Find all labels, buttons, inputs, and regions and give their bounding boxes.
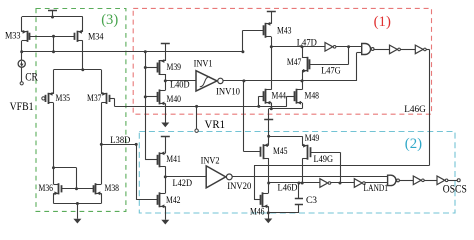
wire VDD rail right [269, 136, 303, 138]
wire diff pair top rail [54, 69, 102, 71]
wire M36 source down [53, 193, 55, 203]
ground symbol M42 [161, 220, 169, 225]
transistor M46 [262, 192, 264, 207]
wire top rail M33-M34 [22, 16, 83, 18]
wire M46 gate vertical [254, 166, 256, 200]
wire NAND1 out [374, 49, 390, 51]
svg-text:M49: M49 [305, 133, 320, 143]
node dot gate tie [52, 35, 55, 38]
svg-text:INV1: INV1 [194, 58, 213, 68]
svg-text:M37: M37 [87, 93, 102, 103]
wire M37 drain up [101, 70, 103, 94]
wire M49 gate L49G [310, 152, 340, 154]
wire M43 drain down [271, 37, 273, 47]
wire M49 drain down [302, 159, 304, 183]
wire L47G gate wire [310, 64, 349, 66]
node dot M33 drain rail [20, 50, 23, 53]
capacitor C3 [295, 198, 303, 200]
wire VR1 line [115, 106, 287, 108]
wire M46 ground stick [268, 213, 270, 219]
node dot L40D [164, 79, 167, 82]
svg-text:M36: M36 [39, 183, 54, 193]
wire bias rail [22, 51, 243, 53]
wire M38 source down [101, 193, 103, 203]
transistor M39 [159, 60, 161, 75]
wire M45 drain down [268, 158, 270, 183]
wire M33 source down [21, 41, 23, 52]
wire C3 bottom [298, 205, 300, 213]
wire M40 gate [145, 96, 157, 98]
svg-text:L46G: L46G [404, 104, 426, 114]
block (1) dashed red box [133, 8, 431, 114]
wire INV10 to M45 gate horiz [244, 151, 261, 153]
terminal VR1 open circle [195, 129, 198, 132]
current source CR wire upper [21, 52, 23, 61]
svg-text:M43: M43 [277, 26, 292, 36]
wire M34 drain up [82, 17, 84, 32]
wire M43 gate jog horizontal [243, 30, 263, 32]
ground symbol M46 [264, 219, 272, 224]
svg-text:INV2: INV2 [201, 155, 220, 165]
node dot L42D [164, 175, 167, 178]
svg-text:L38D: L38D [110, 135, 130, 145]
transistor M37 [106, 93, 108, 104]
svg-text:VFB1: VFB1 [10, 101, 34, 113]
wire CR to terminal [21, 67, 23, 82]
svg-text:INV10: INV10 [216, 86, 240, 96]
node dot M39 gate tap [144, 66, 147, 69]
wire L49G vertical [340, 152, 342, 183]
transistor M40 [159, 89, 161, 104]
node dot L49G tap [339, 182, 342, 185]
svg-text:M41: M41 [166, 154, 181, 164]
wire M47 bottom terminal [302, 71, 304, 90]
wire M41-M42 link [165, 166, 167, 193]
wire M37 gate down [114, 98, 116, 106]
wire L47G vertical [348, 47, 350, 65]
transistor M41 [159, 152, 161, 167]
transistor M33 [27, 31, 29, 42]
wire INV2 output line [232, 176, 387, 178]
VDD supply symbol M41 [161, 136, 170, 138]
node dot C3 tap [297, 182, 300, 185]
wire M33 drain up [21, 17, 23, 32]
wire source rail bottom [54, 203, 102, 205]
inverter block1 third [415, 45, 423, 54]
transistor M38 [95, 183, 97, 194]
svg-text:M34: M34 [88, 31, 104, 41]
wire VDD drop [268, 109, 270, 120]
wire M42 gate horizontal [136, 199, 157, 201]
svg-text:M40: M40 [167, 94, 182, 104]
wire gate-to-rail tie [53, 36, 55, 52]
wire M35 drain up [53, 70, 55, 94]
svg-text:M39: M39 [167, 62, 182, 72]
svg-text:M48: M48 [305, 90, 320, 100]
wire M43-M44 vertical [271, 47, 273, 90]
wire NAND1 bottom input vertical [356, 53, 358, 81]
terminal OSCS open circle [457, 179, 460, 182]
svg-text:M33: M33 [5, 31, 21, 41]
wire M43 gate jog vertical [242, 30, 244, 52]
wire L38D [101, 144, 136, 146]
transistor M34 [77, 31, 79, 42]
wire L46G top horizontal [426, 49, 429, 51]
wire diode tie vertical [76, 168, 78, 189]
node dot M44 gate tap [257, 105, 260, 108]
node dot L47D [270, 45, 273, 48]
VDD supply symbol top-left [48, 10, 57, 12]
wire M39 gate [145, 67, 157, 69]
inverter chain buffer4 [437, 176, 445, 185]
node dot ground tap [76, 202, 79, 205]
svg-text:M46: M46 [250, 207, 265, 217]
wire M45 top [268, 136, 270, 145]
VDD supply symbol mid [264, 119, 273, 121]
svg-text:LAND1: LAND1 [364, 183, 389, 193]
wire M42 source down [165, 206, 167, 219]
transistor M42 [159, 192, 161, 207]
wire LAND1 out [399, 180, 413, 182]
svg-text:(1): (1) [374, 14, 391, 30]
svg-text:L42D: L42D [173, 178, 193, 188]
wire M37 source down to L38D [101, 103, 103, 144]
transistor M44 [265, 89, 267, 104]
NAND gate block1 [362, 44, 371, 55]
wire M38 drain up [101, 144, 103, 184]
node dot M47-INV10 [301, 79, 304, 82]
node dot M47 top tap [301, 45, 304, 48]
node dot L38D right [135, 143, 138, 146]
wire gate tie M33-M34 [30, 36, 76, 38]
svg-text:(2): (2) [405, 136, 422, 152]
wire L40D to INV1 [165, 80, 196, 82]
svg-text:M45: M45 [273, 146, 288, 156]
node dot M40 gate tap [144, 95, 147, 98]
ground symbol diff pair [73, 219, 81, 224]
node dot L38D left [100, 143, 103, 146]
svg-text:L46D: L46D [278, 183, 298, 193]
wire to third inverter [400, 49, 415, 51]
wire buffer2 to LAND1 [365, 182, 387, 184]
svg-text:M42: M42 [166, 195, 181, 205]
wire INV10 down to M45 gate [243, 81, 245, 152]
node dot M34 drain junction [81, 68, 84, 71]
node dot VDD tap [51, 16, 54, 19]
svg-text:L47G: L47G [321, 65, 341, 75]
wire bias vertical [145, 52, 147, 160]
wire M46 gate horizontal [254, 199, 260, 201]
capacitor C3 top wire [298, 183, 300, 198]
wire buffer3 to buffer4 [424, 180, 437, 182]
wire M37 gate right [109, 98, 114, 100]
wire to OSCS terminal [448, 180, 458, 182]
wire L42D to INV2 [165, 176, 206, 178]
wire VFB1 to M35 gate [44, 98, 47, 100]
inverter chain buffer3 [413, 176, 421, 185]
node dot VDD mid rail [267, 135, 270, 138]
node dot INV10 branch [242, 79, 245, 82]
transistor M48 [296, 89, 298, 104]
svg-text:M38: M38 [105, 183, 120, 193]
wire VR1 down [196, 106, 198, 129]
block (2) dashed cyan box [139, 132, 455, 214]
svg-text:M44: M44 [272, 90, 287, 100]
wire L46G horizontal [254, 165, 429, 167]
terminal VFB1 open circle [42, 97, 45, 100]
wire L47D line [271, 46, 325, 48]
node dot VR1 tap [195, 105, 198, 108]
inverter block1 first [325, 43, 333, 52]
terminal CR open circle [20, 82, 23, 85]
wire M35 source down [53, 103, 55, 184]
svg-text:OSCS: OSCS [443, 184, 467, 196]
wire M36-M38 gate wire [61, 188, 93, 190]
wire M44 gate down [258, 96, 260, 106]
node dot bias rail tap [144, 50, 147, 53]
wire NAND1 bottom input stub [357, 52, 362, 54]
wire L47D to NAND1 [336, 46, 362, 48]
transistor M43 [265, 23, 267, 38]
wire VDD stick down [268, 119, 270, 136]
svg-text:C3: C3 [306, 195, 317, 205]
wire M40 source down [165, 103, 167, 122]
wire ground link to C3 [268, 212, 299, 214]
node dot L46D left [267, 182, 270, 185]
wire M44-M48 source rail [269, 108, 302, 110]
current source CR [18, 60, 25, 67]
node dot M46 ground [267, 211, 270, 214]
node dot M36 diode tap [52, 166, 55, 169]
svg-text:L49G: L49G [314, 154, 334, 164]
wire L46D line [269, 182, 320, 184]
transistor M49 [307, 145, 309, 160]
node dot L47G tap [347, 45, 350, 48]
svg-text:L40D: L40D [170, 79, 190, 89]
wire M47 top terminal [302, 47, 304, 58]
wire INV1 output [223, 80, 357, 82]
transistor M36 [58, 183, 60, 194]
svg-text:CR: CR [25, 71, 38, 83]
wire M44 gate jog [259, 96, 264, 98]
inverter block1 second [390, 45, 398, 54]
wire M46 source down [268, 206, 270, 213]
inverter INV1 schmitt [196, 71, 217, 91]
svg-text:M35: M35 [56, 93, 71, 103]
transistor M45 [263, 144, 265, 159]
wire diode tie horizontal [54, 167, 77, 169]
svg-text:VR1: VR1 [205, 119, 226, 131]
wire buffer1 to buffer2 [331, 182, 355, 184]
wire M46 drain up [268, 183, 270, 193]
wire L46G vertical [429, 49, 431, 165]
svg-text:L47D: L47D [297, 38, 317, 48]
ground symbol M40 [161, 123, 169, 128]
wire M39-M40 link [165, 74, 167, 90]
wire M41 gate horizontal [145, 159, 157, 161]
wire L38D vertical to M42 gate [136, 144, 138, 199]
node dot M44 source [270, 107, 273, 110]
node dot M43 gate-rail [241, 50, 244, 53]
VDD supply symbol M43 [267, 11, 276, 13]
transistor M35 [48, 93, 50, 104]
node dot M49 drain [301, 182, 304, 185]
NAND gate LAND1 [388, 175, 396, 185]
node dot M36-M38 gate tie [75, 187, 78, 190]
svg-text:INV20: INV20 [227, 181, 251, 191]
wire M48 source down [302, 103, 304, 109]
VDD supply symbol M39 [161, 43, 170, 45]
inverter chain buffer1 [320, 179, 328, 188]
transistor M47 [307, 57, 309, 72]
wire to ground [77, 204, 79, 219]
svg-text:(3): (3) [101, 12, 118, 28]
wire M49 top [302, 136, 304, 146]
block (3) dashed green box [36, 9, 126, 212]
inverter chain buffer2 [354, 179, 362, 188]
wire M48 gate down [286, 96, 288, 106]
svg-text:M47: M47 [287, 57, 302, 67]
wire M34 source down to diff rail [82, 41, 84, 70]
wire M44 source down [271, 103, 273, 109]
wire M48 gate jog [287, 96, 294, 98]
inverter INV2 [206, 166, 226, 188]
node dot tie rail [52, 50, 55, 53]
